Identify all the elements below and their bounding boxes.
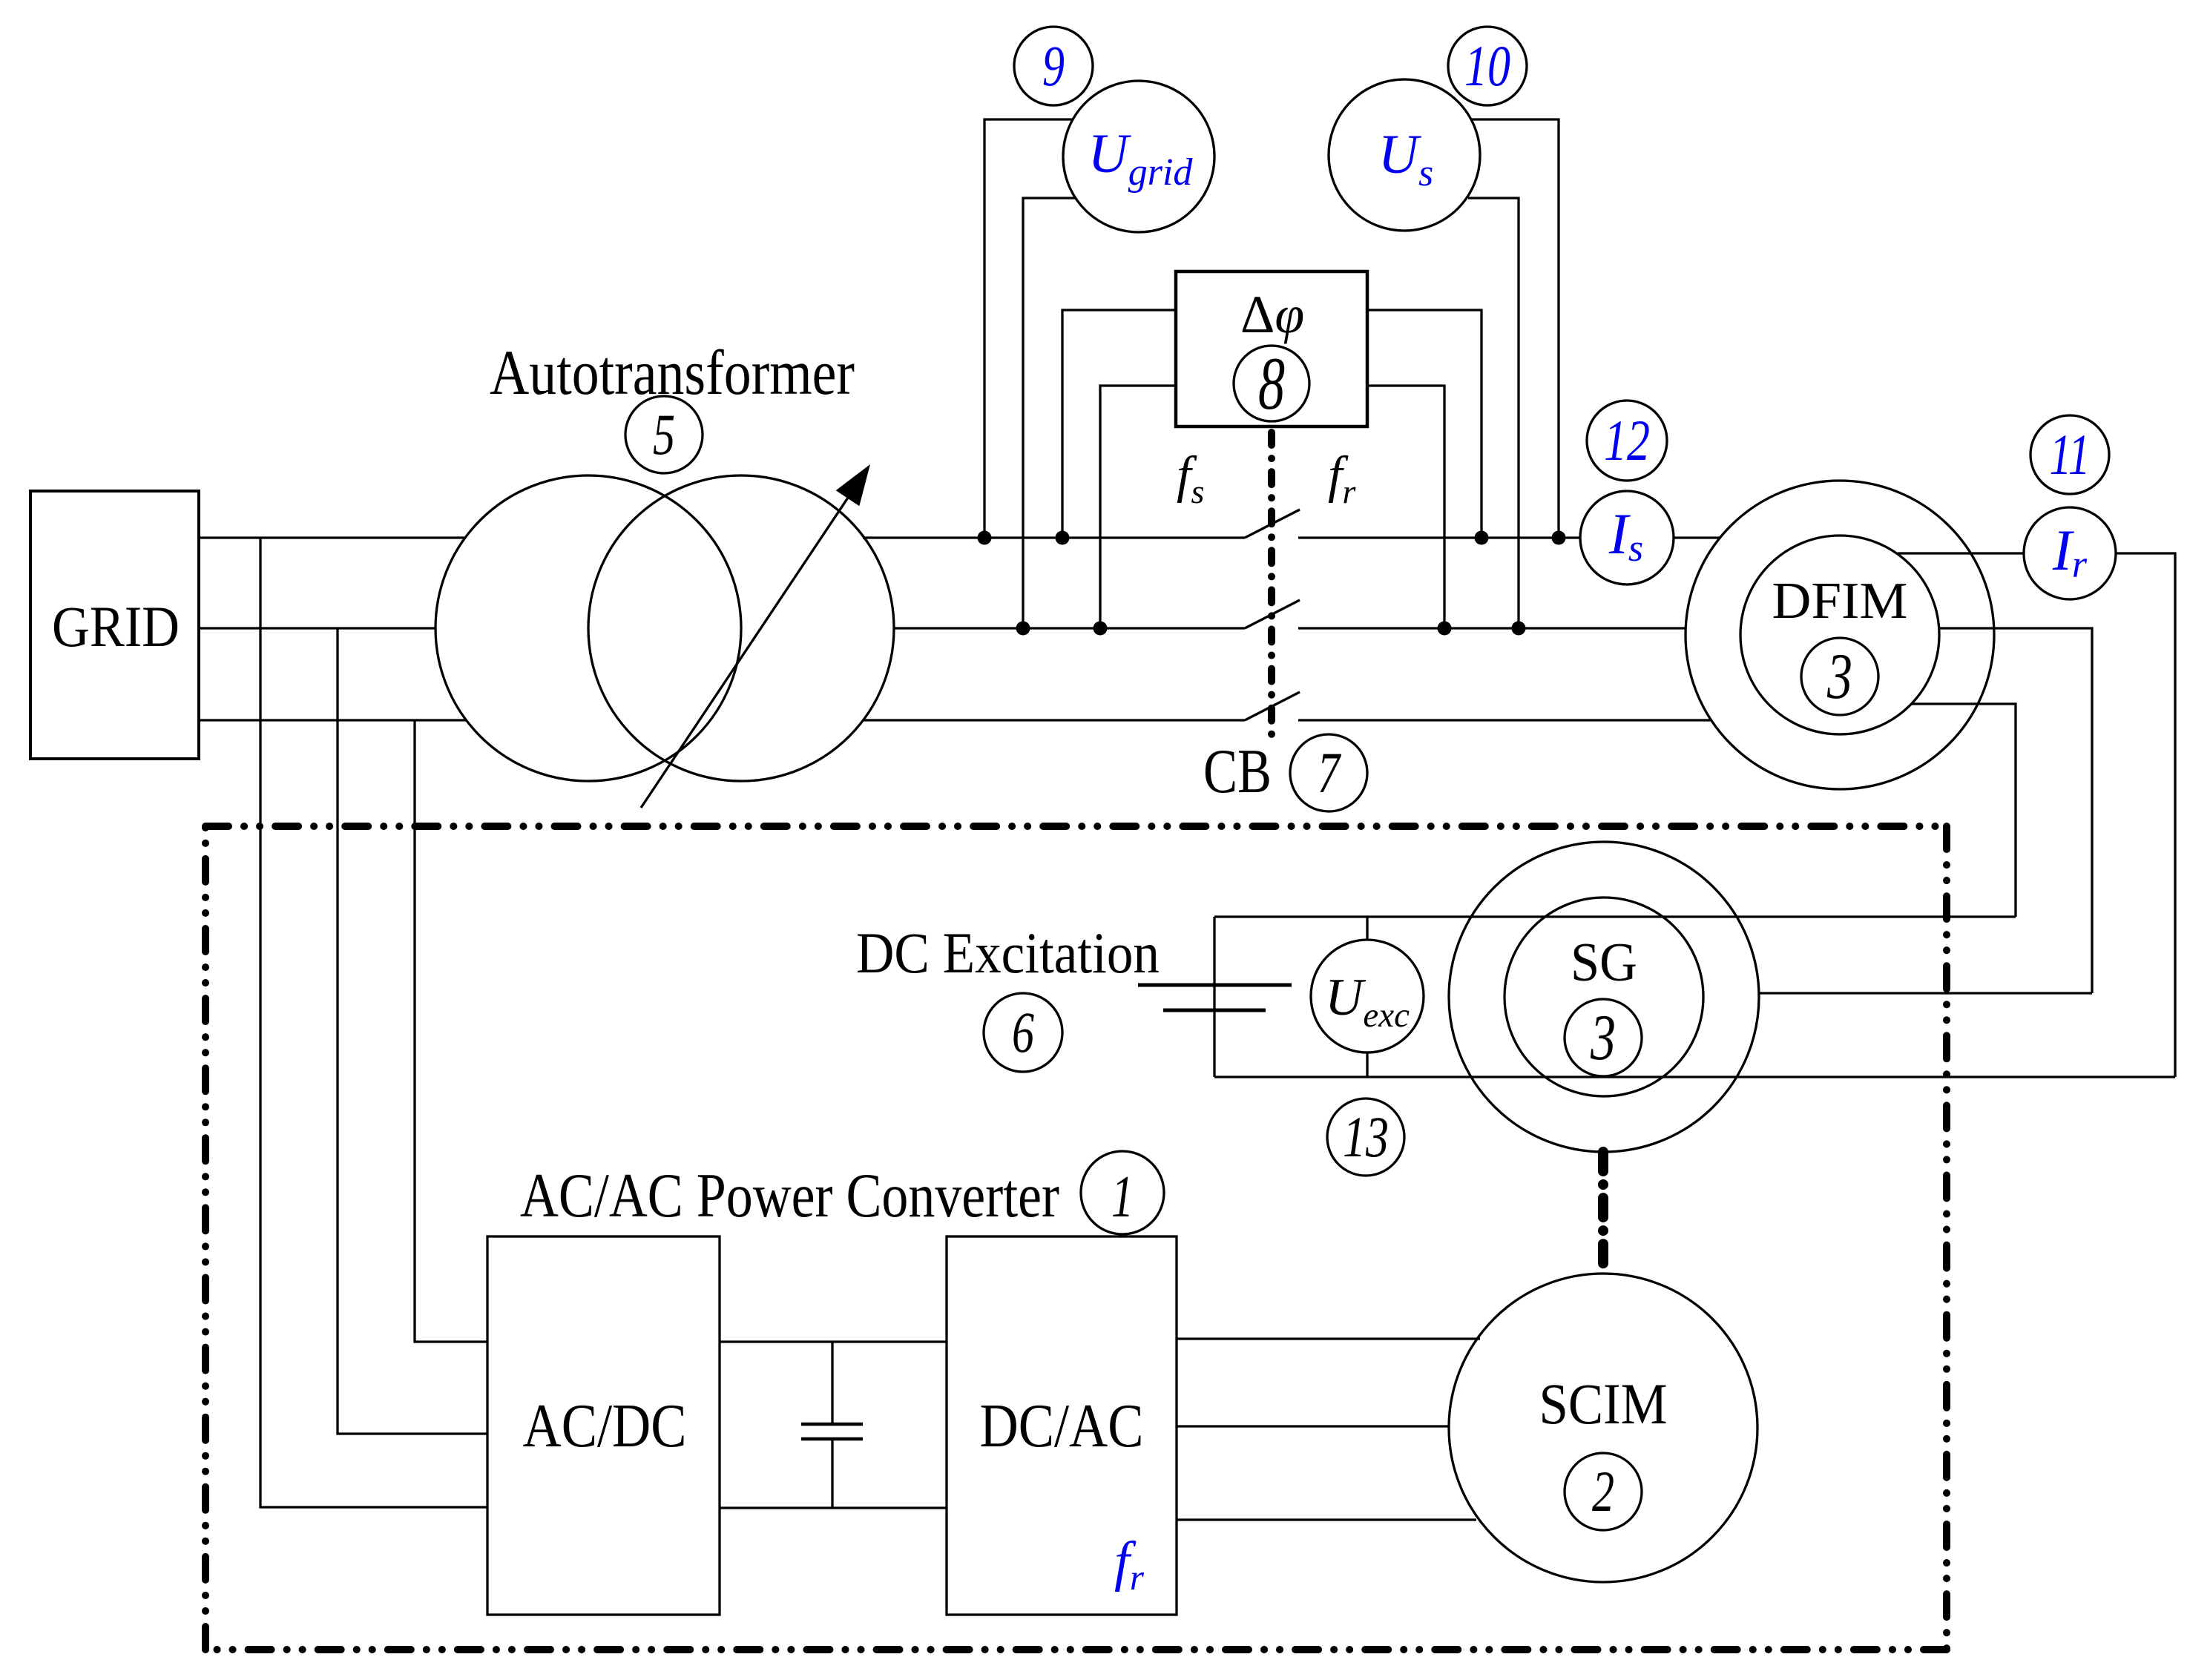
GRID box — [30, 491, 199, 759]
wire rotor phase 3: DFIM rotor to riser — [1911, 704, 2016, 917]
svg-text:6: 6 — [1012, 1000, 1034, 1064]
DC excitation battery plate short — [1163, 1009, 1266, 1012]
svg-text:12: 12 — [1604, 408, 1650, 472]
wire phase C: GRID to autotransformer — [199, 719, 466, 721]
wire: phase A tap up to Ugrid meter — [984, 119, 1073, 538]
wire phase C: switch to DFIM stator — [1298, 719, 1711, 721]
test-bench dash-dot-dot border bottom — [205, 1646, 1947, 1653]
SG synchronous generator inner circle — [1504, 897, 1703, 1096]
wire: DC/AC output phase 2 to SCIM — [1177, 1425, 1449, 1427]
svg-text:9: 9 — [1042, 33, 1065, 98]
junction dot A3 — [1475, 531, 1489, 545]
circuit breaker CB linkage dashed line — [1268, 432, 1275, 745]
voltmeter Us (10) — [1329, 79, 1480, 231]
circle 5 (autotransformer designator) — [625, 396, 703, 473]
wire: DC link negative rail — [720, 1506, 947, 1509]
DFIM machine outer circle (stator) — [1686, 481, 1994, 789]
SCIM squirrel-cage induction motor circle — [1449, 1274, 1757, 1582]
circle 1 designator — [1081, 1151, 1164, 1234]
wire phase B: GRID to autotransformer — [199, 627, 435, 629]
DC/AC inverter box — [947, 1236, 1177, 1615]
circle 11 designator — [2030, 415, 2109, 494]
svg-text:SG: SG — [1571, 932, 1637, 993]
circle 3 designator inside SG — [1565, 999, 1642, 1076]
wire: Uexc meter bottom stub — [1366, 1053, 1368, 1077]
autotransformer T5 primary winding circle — [435, 475, 741, 781]
DC link capacitor plate top — [801, 1423, 863, 1426]
wire rotor phase 1: DFIM rotor to Ir meter — [1898, 552, 2024, 554]
ammeter Is (12) — [1580, 491, 1674, 584]
autotransformer T5 variable-tap arrow — [641, 464, 870, 808]
svg-text:3: 3 — [1826, 641, 1852, 713]
svg-text:DFIM: DFIM — [1772, 573, 1908, 630]
junction dot A1 — [978, 531, 992, 545]
wire: phase B tap up to phase-shift box left lower — [1100, 386, 1176, 628]
wire: SG middle feeder — [1759, 992, 2092, 994]
svg-text:7: 7 — [1318, 740, 1341, 805]
svg-text:2: 2 — [1592, 1459, 1614, 1523]
wire rotor phase 2: DFIM rotor to riser — [1939, 628, 2092, 993]
DC link capacitor bottom lead — [831, 1439, 833, 1508]
wire phase A: Is meter to DFIM stator — [1674, 536, 1720, 538]
junction dot B3 — [1438, 622, 1452, 636]
junction dot B2 — [1094, 622, 1108, 636]
circuit breaker CB blade phase B — [1245, 600, 1300, 628]
wire: phase-shift box right upper down to phase A — [1367, 310, 1481, 538]
svg-text:AC/AC Power Converter: AC/AC Power Converter — [520, 1161, 1059, 1231]
circuit breaker CB blade phase C — [1245, 692, 1300, 720]
wire: DC link positive rail — [720, 1340, 947, 1343]
wire: excitation box left edge — [1213, 917, 1215, 1077]
test-bench dash-dot-dot border top — [205, 823, 1947, 830]
circle 12 designator — [1587, 401, 1667, 481]
wire phase A: switch to Is meter — [1298, 536, 1580, 538]
wire: DC/AC output phase 3 to SCIM — [1177, 1518, 1476, 1521]
wire phase A: autotransformer to switch — [863, 536, 1245, 538]
wire: phase A tap up to phase-shift box left upper — [1062, 310, 1176, 538]
wire: Us meter to phase B tap — [1468, 198, 1519, 628]
svg-text:CB: CB — [1203, 737, 1272, 806]
svg-text:13: 13 — [1343, 1104, 1389, 1169]
shaft coupling SG-SCIM dash-dot line — [1598, 1152, 1608, 1274]
wire phase C: autotransformer to switch — [863, 719, 1245, 721]
DC excitation battery plate long — [1138, 984, 1292, 987]
junction dot A4 — [1552, 531, 1566, 545]
wire: grid tap phase B down to AC/DC middle input — [338, 628, 487, 1434]
svg-text:DC Excitation: DC Excitation — [856, 920, 1160, 985]
wire phase A: GRID to autotransformer — [199, 536, 466, 538]
wire: grid tap phase A down to AC/DC bottom input — [260, 538, 487, 1507]
svg-text:AC/DC: AC/DC — [523, 1391, 687, 1460]
wire: Us meter to phase A tap — [1470, 119, 1559, 538]
svg-text:11: 11 — [2050, 422, 2091, 487]
circle 7 designator — [1290, 734, 1367, 811]
wire: Uexc meter top stub — [1366, 917, 1368, 940]
voltmeter Ugrid (9) — [1063, 81, 1214, 232]
SG synchronous generator outer circle — [1449, 842, 1759, 1152]
circle 6 designator — [984, 993, 1062, 1072]
svg-text:SCIM: SCIM — [1539, 1371, 1668, 1436]
junction dot A2 — [1056, 531, 1070, 545]
wire phase B: autotransformer to switch — [893, 627, 1245, 629]
circle 10 designator — [1448, 27, 1527, 105]
wire: phase B tap up to Ugrid meter — [1023, 198, 1076, 628]
DC link capacitor plate bottom — [801, 1437, 863, 1441]
DC link capacitor top lead — [831, 1342, 833, 1424]
circle 13 designator — [1327, 1098, 1404, 1176]
wire rotor phase 1: Ir meter to right riser — [2116, 553, 2175, 1077]
svg-text:Δφ: Δφ — [1240, 285, 1304, 344]
svg-text:Autotransformer: Autotransformer — [490, 337, 855, 408]
junction dot B4 — [1512, 622, 1526, 636]
autotransformer T5 secondary winding circle — [588, 475, 894, 781]
junction dot B1 — [1016, 622, 1030, 636]
svg-text:8: 8 — [1258, 342, 1285, 426]
svg-text:5: 5 — [653, 402, 675, 467]
svg-text:1: 1 — [1111, 1165, 1134, 1230]
wire phase B: switch to DFIM stator — [1298, 627, 1686, 629]
wire: excitation box bottom edge / SG bottom feeder — [1214, 1075, 2175, 1078]
wire: grid tap phase C down to AC/DC top input — [415, 720, 487, 1342]
wire: DC/AC output phase 1 to SCIM — [1177, 1337, 1480, 1340]
circuit breaker CB blade phase A — [1245, 510, 1300, 538]
circle 9 designator — [1014, 27, 1093, 105]
circle 2 designator inside SCIM — [1565, 1453, 1642, 1530]
svg-text:3: 3 — [1590, 1002, 1616, 1074]
svg-text:GRID: GRID — [52, 594, 180, 659]
ammeter Ir (11) — [2024, 507, 2116, 599]
test-bench dash-dot-dot border right — [1943, 826, 1950, 1650]
circle 3 designator inside DFIM — [1801, 638, 1878, 715]
phase-shift comparator box 8 — [1176, 271, 1367, 426]
circle 8 designator — [1234, 346, 1309, 421]
voltmeter Uexc (13) — [1311, 940, 1424, 1053]
AC/DC rectifier box — [487, 1236, 720, 1615]
wire: excitation box top edge / SG top feeder — [1214, 915, 2016, 918]
test-bench dash-dot-dot border left — [202, 826, 209, 1650]
svg-text:DC/AC: DC/AC — [980, 1391, 1144, 1460]
svg-text:10: 10 — [1464, 33, 1510, 98]
DFIM machine inner circle (rotor) — [1740, 536, 1939, 734]
wire: phase-shift box right lower down to phase B — [1367, 386, 1444, 628]
